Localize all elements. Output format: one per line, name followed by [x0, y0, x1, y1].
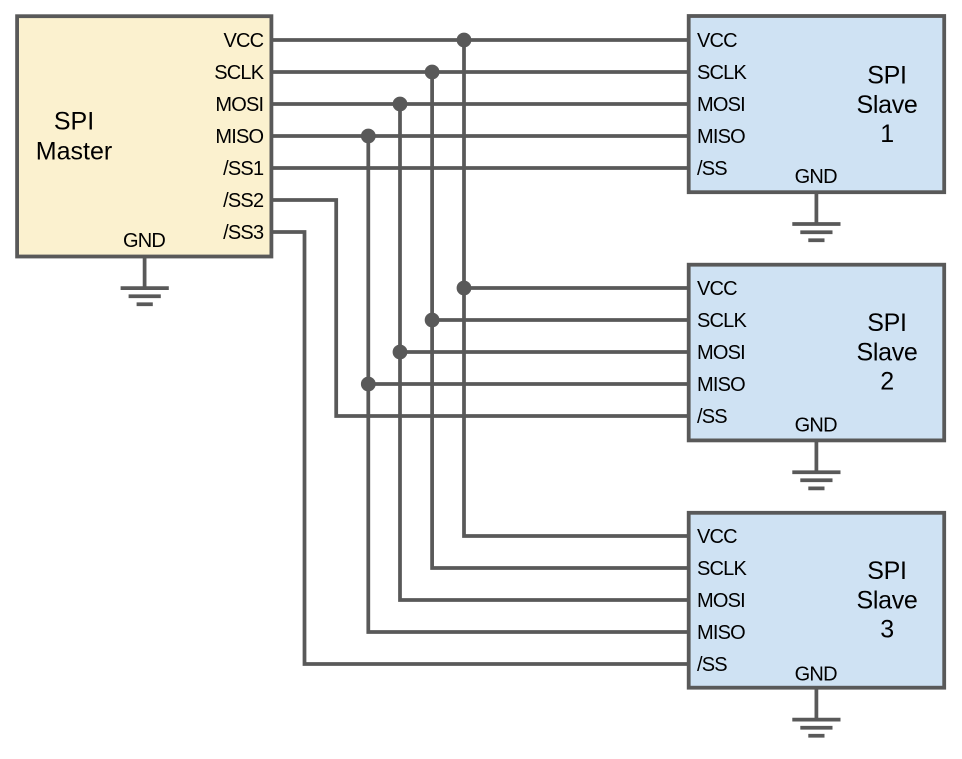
svg-text:MOSI: MOSI — [215, 94, 263, 116]
svg-text:MOSI: MOSI — [697, 342, 745, 364]
svg-text:/SS3: /SS3 — [223, 222, 264, 244]
svg-text:MISO: MISO — [215, 126, 263, 148]
svg-text:SPI: SPI — [867, 309, 906, 337]
svg-text:/SS1: /SS1 — [223, 158, 264, 180]
svg-text:3: 3 — [880, 616, 894, 644]
svg-text:MISO: MISO — [697, 374, 745, 396]
svg-text:Slave: Slave — [856, 338, 917, 366]
svg-text:/SS2: /SS2 — [223, 190, 264, 212]
svg-text:SPI: SPI — [54, 108, 94, 136]
svg-text:VCC: VCC — [223, 30, 263, 52]
svg-text:VCC: VCC — [697, 30, 737, 52]
svg-text:MOSI: MOSI — [697, 590, 745, 612]
svg-text:2: 2 — [880, 368, 894, 396]
svg-text:MOSI: MOSI — [697, 94, 745, 116]
svg-text:GND: GND — [795, 663, 837, 685]
svg-text:Slave: Slave — [856, 91, 917, 119]
svg-text:1: 1 — [880, 120, 894, 148]
svg-text:SCLK: SCLK — [697, 558, 748, 580]
svg-text:SCLK: SCLK — [697, 62, 748, 84]
svg-text:VCC: VCC — [697, 278, 737, 300]
svg-text:GND: GND — [795, 166, 837, 188]
svg-text:Master: Master — [36, 138, 112, 166]
svg-text:SCLK: SCLK — [697, 310, 748, 332]
svg-text:MISO: MISO — [697, 126, 745, 148]
svg-text:SCLK: SCLK — [214, 62, 265, 84]
svg-text:/SS: /SS — [697, 654, 727, 676]
svg-text:SPI: SPI — [867, 62, 906, 90]
svg-text:VCC: VCC — [697, 526, 737, 548]
svg-text:MISO: MISO — [697, 622, 745, 644]
svg-text:Slave: Slave — [856, 586, 917, 614]
svg-text:GND: GND — [123, 230, 165, 252]
svg-text:/SS: /SS — [697, 406, 727, 428]
svg-text:/SS: /SS — [697, 158, 727, 180]
svg-text:SPI: SPI — [867, 557, 906, 585]
svg-text:GND: GND — [795, 415, 837, 437]
